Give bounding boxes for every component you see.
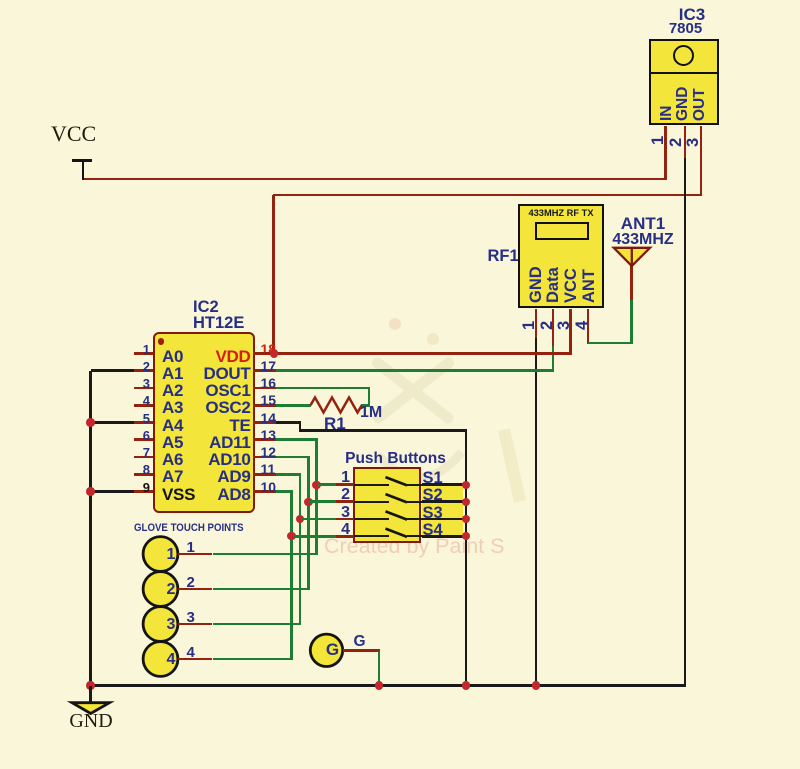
touch point wire number 3 [187,609,195,626]
label RF1 [488,247,519,266]
RF1 inner rectangle [535,222,589,240]
junction G to rail [375,681,383,689]
IC2 pin number 16 [261,375,277,391]
wire TE horizontal [276,421,302,424]
wire AD11 horizontal [276,438,318,441]
switch number 3 [330,504,350,522]
touch point wire number 4 [187,644,195,661]
junction AD9 switch row [296,515,304,523]
IC2 pin number 6 [119,428,150,443]
IC2 pin number 9 [119,480,150,495]
label GLOVE TOUCH POINTS [134,522,244,534]
wire AD9 horizontal [276,473,302,476]
IC2 left pin 5 stub [134,421,153,424]
label ANT1 [611,214,675,234]
RF1 title 433MHZ RF TX [518,208,604,218]
junction S1 common [462,481,470,489]
RF1 pin label VCC [562,268,581,303]
wire AD10 horizontal [276,456,310,459]
IC2 left pin 8 stub [134,473,153,476]
label VCC [51,121,96,147]
encoder IC2 body [153,332,255,514]
IC2 pin number 3 [119,376,150,391]
IC2 right pin 15 stub [253,404,276,407]
switch S2 left contact [354,501,389,503]
wire touch point 1 [213,553,318,556]
IC2 label TE [189,416,251,436]
touch point 1 stub [178,553,213,556]
IC2 label A3 [162,398,183,418]
wire TE across [300,429,467,432]
IC2 right pin 16 stub [253,387,276,390]
value 433MHZ [611,231,675,249]
IC2 label A7 [162,467,183,487]
IC2 right pin 11 stub [253,473,276,476]
IC2 pin number 7 [119,445,150,460]
IC2 pin number 8 [119,462,150,477]
label R1 [324,414,346,434]
IC2 label A4 [162,416,183,436]
IC3 mounting hole [673,45,694,66]
IC2 left pin 6 stub [134,438,153,441]
IC2 pin1 mark [158,338,165,345]
IC2 pin number 12 [261,444,277,460]
wire IC3 GND down [684,158,687,687]
IC2 label AD9 [189,467,251,487]
wire G drop [378,651,381,687]
junction VSS bus [86,487,94,495]
label S1 [423,469,443,488]
IC2 right pin 13 stub [253,438,276,441]
label S2 [423,486,443,505]
touch point digit 3 [163,616,179,634]
IC2 pin number 10 [261,479,277,495]
wire OSC2 to R1 [276,404,312,407]
IC2 label AD11 [189,433,251,453]
switch S4 left stub [336,535,354,538]
switch S2 left stub [336,500,354,503]
wire AD8 horizontal [276,490,293,493]
IC2 pin number 14 [261,410,277,426]
switch number 1 [330,469,350,487]
RF1 pin number 4 [573,321,592,330]
junction S2 common [462,498,470,506]
IC3 pin number 2 [667,137,686,146]
RF1 pin label GND [527,266,546,303]
touch point digit 4 [163,651,179,669]
RF module RF1 body [518,204,604,308]
wire switch S4 left lead [293,535,336,538]
IC3 pad label OUT [691,88,709,121]
wire VCC rail to IC3 IN [84,178,667,181]
IC2 label A5 [162,433,183,453]
touch point wire number 1 [187,539,195,556]
label IC2 [193,298,219,317]
IC3 pad label GND [674,87,692,121]
touch point digit 1 [163,546,179,564]
switch number 4 [330,521,350,539]
wire ANT link vertical [630,300,633,343]
junction S3 common [462,515,470,523]
touch point 3 stub [178,623,213,626]
switch S2 right contact [407,501,423,503]
IC2 label DOUT [189,364,251,384]
RF1 pin label Data [544,267,563,303]
IC2 right pin 12 stub [253,456,276,459]
switch S3 left stub [336,518,354,521]
wire OSC1 horizontal [276,387,371,390]
wire DOUT to Data [276,369,555,372]
wire IC3 pin1 drop [664,126,667,180]
IC2 pin number 2 [119,359,150,374]
power symbol VCC T-bar [72,159,92,162]
IC2 right pin 10 stub [253,490,276,493]
IC2 label A0 [162,347,183,367]
wire ANT link horizontal [588,342,633,345]
wire touch point 3 [213,623,302,626]
IC2 pin number 13 [261,427,277,443]
IC2 right pin 17 stub [253,369,276,372]
RF1 pin number 2 [538,320,557,329]
wire TE jog down [299,423,302,432]
junction AD10 switch row [304,498,312,506]
wire RF1 pin4 stub [587,309,590,344]
switch S3 right contact [407,518,423,520]
IC2 left pin 1 stub [134,352,153,355]
wire RF1 pin2 stub [552,309,555,346]
IC2 right pin 14 stub [253,421,276,424]
switch S4 left contact [354,535,389,537]
value HT12E [193,314,244,333]
IC2 label VSS [162,485,195,505]
wire IC3 pin2 stub [684,126,687,158]
touch point 2 stub [178,588,213,591]
wire TE to switches common [465,431,468,687]
IC2 pin number 4 [119,393,150,408]
IC2 left pin 9 stub [134,490,153,493]
switch number 2 [330,486,350,504]
wire G stub [343,649,381,652]
IC3 pad label IN [658,106,676,122]
IC3 pin number 3 [684,137,703,146]
wire switch S1 left lead [318,483,336,486]
IC2 pin number 15 [261,392,277,408]
IC2 pin number 5 [119,411,150,426]
wire RF1 GND down [535,338,538,687]
wire A4 to bus [91,421,134,424]
G circle digit [325,640,341,660]
wire AD9 vertical [299,474,302,625]
junction AD8 switch row [287,532,295,540]
wire switch S3 left lead [301,518,336,521]
wire AD11 vertical [315,440,318,555]
wire RF1 pin1 stub [535,309,538,338]
wire touch point 4 [213,658,293,661]
wire A1-A4-VSS bus [89,371,92,687]
label GND [66,710,116,733]
switch S1 right contact [407,484,423,486]
IC2 label A2 [162,381,183,401]
wire R1 to OSC1 drop [361,404,370,407]
IC2 label OSC2 [189,398,251,418]
IC2 label AD8 [189,485,251,505]
junction VDD rail [270,349,278,357]
wire switch S2 to common [422,500,466,503]
IC2 left pin 2 stub [134,369,153,372]
wire RF1 Data drop [552,346,555,372]
push button block body [353,467,421,543]
wire switch S1 to common [422,483,466,486]
switch S3 left contact [354,518,389,520]
value 7805 [654,20,718,37]
wire GND rail [89,684,686,687]
switch S1 left contact [354,484,389,486]
IC2 right pin 18 stub [253,352,276,355]
wire A1 to bus [91,369,134,372]
wire AD10 vertical [307,457,310,590]
IC2 label AD10 [189,450,251,470]
touch point 4 stub [178,658,213,661]
push button side strips [422,486,463,536]
power symbol VCC stem [82,159,85,180]
IC2 label VDD [189,347,251,367]
junction A4 bus [86,418,94,426]
wire touch point 2 [213,588,310,591]
IC2 left pin 7 stub [134,456,153,459]
label IC3 [660,5,724,25]
IC2 pin number 1 [119,342,150,357]
junction AD11 switch row [312,481,320,489]
label G [354,633,366,651]
touch point wire number 2 [187,574,195,591]
junction TE common to rail [462,681,470,689]
switch S1 left stub [336,483,354,486]
junction S4 common [462,532,470,540]
wire IC3 pin3 drop [700,126,703,196]
wire VDD row to RF VCC [253,352,572,355]
RF1 pin number 3 [555,321,574,330]
watermark text Created by Paint S [324,534,504,559]
wire RF1 pin3 VCC stub [569,309,572,355]
IC2 left pin 3 stub [134,387,153,390]
IC2 label A1 [162,364,183,384]
wire switch S3 to common [422,518,466,521]
value 1M [360,404,382,422]
IC2 label OSC1 [189,381,251,401]
wire 5V rail drop to VDD [272,195,275,355]
IC2 label A6 [162,450,183,470]
ground stub [89,686,92,704]
label Push Buttons [345,450,446,468]
wire VSS to bus [91,490,134,493]
RF1 pin label ANT [580,269,599,303]
wire OSC1 drop [368,388,371,406]
voltage regulator IC3 body [649,39,719,126]
wire AD8 vertical [290,492,293,661]
IC3 pin number 1 [649,135,668,144]
IC2 pin number 11 [261,461,276,477]
junction GND left [86,681,94,689]
IC2 pin number 18 [261,341,277,357]
IC3 tab divider [650,72,719,75]
wire switch S4 to common [422,535,466,538]
wire switch S2 left lead [310,500,336,503]
antenna stem [630,264,633,300]
touch point digit 2 [163,581,179,599]
label S4 [423,521,443,540]
IC2 pin number 17 [261,358,277,374]
switch S4 right contact [407,535,423,537]
IC2 left pin 4 stub [134,404,153,407]
junction RF GND to rail [532,681,540,689]
RF1 pin number 1 [520,320,539,329]
label S3 [423,504,443,523]
wire 5V output rail [273,194,703,197]
